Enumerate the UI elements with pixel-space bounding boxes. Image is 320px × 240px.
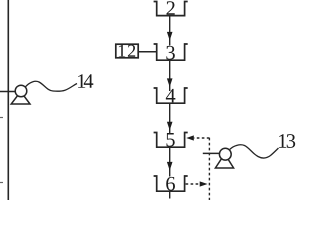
label box 12 number	[119, 45, 125, 57]
wire arrow tank3 to tank4	[169, 60, 171, 91]
wire arrow tank4 to tank5	[169, 103, 171, 134]
wire leader squiggle to label 14	[25, 81, 77, 91]
box 12	[116, 44, 138, 58]
tank 5 vessel	[154, 133, 188, 148]
label tank 4 number	[166, 89, 176, 102]
wire outlet below tank6	[169, 191, 171, 198]
tank 2 vessel	[154, 2, 188, 16]
tank 6 vessel	[154, 176, 188, 191]
tank 4 vessel	[154, 88, 188, 103]
wire dashed arrow into tank5	[194, 137, 210, 139]
pump P14 circle body	[15, 85, 27, 97]
pump P13 triangle base	[215, 154, 233, 168]
wire arrow tank5 to tank6	[169, 147, 171, 176]
wire left edge tick upper	[0, 117, 3, 119]
label tank 5 number	[166, 133, 174, 147]
label tank 3 number	[166, 46, 174, 60]
label 13	[279, 134, 286, 148]
wire leader squiggle to label 13	[230, 145, 279, 158]
wire pump 13 suction line	[203, 152, 220, 154]
wire dashed arrow from tank6	[186, 183, 200, 185]
wire left vertical feed line	[7, 0, 9, 200]
wire arrow tank2 to tank3	[169, 16, 171, 46]
label tank 2 number	[166, 1, 174, 15]
wire pump 14 inlet horizontal line	[0, 91, 17, 93]
pump P14 triangle base	[11, 92, 30, 105]
pump P13 circle body	[219, 148, 231, 160]
tank 3 vessel	[154, 44, 188, 60]
wire left edge tick lower	[0, 182, 3, 184]
label 14	[78, 74, 85, 88]
label tank 6 number	[166, 177, 175, 191]
wire box12 to tank3	[138, 51, 157, 53]
wire dashed return line vertical	[208, 138, 210, 200]
